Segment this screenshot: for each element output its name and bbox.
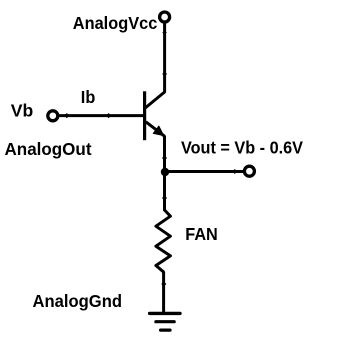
- junction marker near Vcc terminal: [162, 30, 166, 35]
- junction marker on ground wire: [161, 281, 166, 286]
- wire base: [59, 114, 144, 117]
- terminal Vout: [244, 166, 254, 176]
- svg-text:AnalogOut: AnalogOut: [5, 139, 92, 159]
- terminal Vb: [48, 111, 58, 121]
- wire Vcc to collector: [146, 23, 165, 107]
- svg-text:FAN: FAN: [185, 224, 218, 244]
- ground bar 2: [156, 320, 174, 323]
- svg-text:AnalogVcc: AnalogVcc: [73, 13, 158, 33]
- svg-text:Ib: Ib: [81, 87, 96, 107]
- ground bar 3: [161, 329, 170, 332]
- transistor Q1 emitter: [146, 122, 165, 136]
- transistor Q1 emitter arrow: [153, 126, 163, 135]
- transistor Q1 base bar: [143, 91, 146, 140]
- junction marker above node: [162, 155, 167, 160]
- junction marker on Vcc wire: [162, 72, 167, 77]
- wire resistor to ground: [162, 272, 165, 313]
- junction marker on base wire 2: [106, 113, 111, 118]
- node output junction dot: [161, 168, 169, 176]
- terminal AnalogVcc: [160, 12, 170, 22]
- junction marker on base wire 1: [64, 113, 69, 118]
- resistor FAN: [156, 210, 171, 272]
- ground bar 1: [150, 312, 180, 315]
- wire node to Vout terminal: [165, 170, 244, 173]
- svg-text:Vb: Vb: [11, 101, 34, 121]
- svg-text:Vout = Vb - 0.6V: Vout = Vb - 0.6V: [181, 138, 303, 158]
- wire emitter to node to resistor: [163, 136, 166, 211]
- junction marker below node: [162, 195, 167, 200]
- junction marker on Vout wire: [232, 169, 237, 174]
- svg-text:AnalogGnd: AnalogGnd: [33, 291, 123, 311]
